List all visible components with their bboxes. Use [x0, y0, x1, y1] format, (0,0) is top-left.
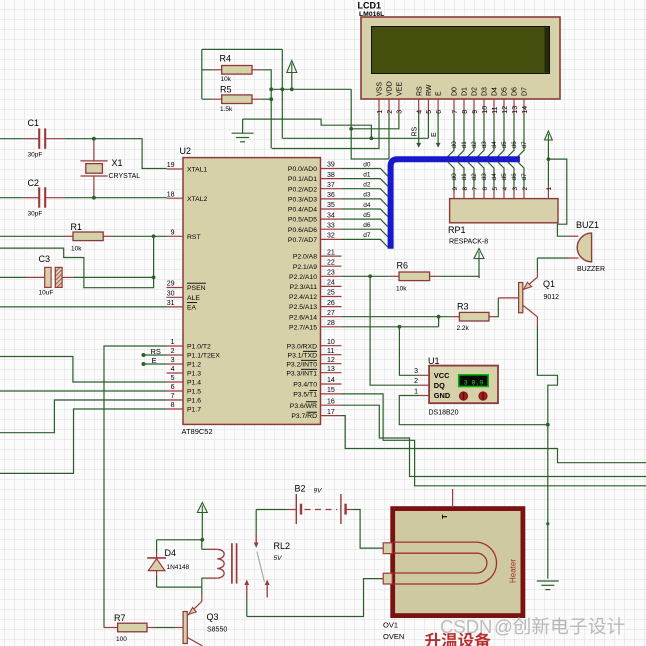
- svg-text:23: 23: [327, 270, 335, 277]
- label heating device (Chinese): [425, 632, 491, 646]
- svg-text:d3: d3: [481, 173, 488, 181]
- wire R4/R5 left vertical: [201, 49, 203, 99]
- svg-text:P1.1/T2EX: P1.1/T2EX: [187, 353, 220, 360]
- buzzer BUZ1: [569, 220, 606, 273]
- junction RST/staircase: [152, 234, 156, 238]
- svg-text:E: E: [436, 91, 443, 96]
- wire P1.5 left: [0, 390, 167, 392]
- junction R5/vertical: [269, 97, 273, 101]
- svg-text:7: 7: [452, 110, 459, 114]
- svg-text:R4: R4: [220, 54, 232, 64]
- svg-text:EA: EA: [187, 305, 197, 312]
- ground (bottom): [537, 581, 559, 590]
- svg-text:P1.0/T2: P1.0/T2: [187, 344, 211, 351]
- svg-text:P1.3: P1.3: [187, 371, 201, 378]
- svg-text:4: 4: [171, 366, 175, 373]
- svg-text:d4: d4: [491, 173, 498, 181]
- power terminal (relay): [197, 503, 207, 513]
- svg-text:PSEN: PSEN: [187, 285, 206, 292]
- RP1 pin 1 stub and number: [546, 185, 553, 199]
- svg-text:16: 16: [327, 398, 335, 405]
- wire P1.7 left: [0, 409, 167, 473]
- power terminal (top): [287, 61, 297, 73]
- svg-text:D0: D0: [452, 87, 459, 96]
- svg-text:P3.0/RXD: P3.0/RXD: [287, 343, 317, 350]
- svg-text:3: 3: [397, 110, 404, 114]
- svg-text:C2: C2: [28, 178, 40, 188]
- svg-text:P2.1/A9: P2.1/A9: [293, 264, 317, 271]
- svg-text:D6: D6: [512, 87, 519, 96]
- wire vertical to RW net: [281, 49, 283, 138]
- svg-text:d5: d5: [363, 212, 371, 219]
- svg-text:5V: 5V: [274, 555, 283, 562]
- wire ground staircase: [243, 119, 372, 138]
- svg-text:2: 2: [171, 348, 175, 355]
- wire VCC jog: [438, 317, 440, 327]
- svg-text:8: 8: [462, 110, 469, 114]
- svg-text:2.2k: 2.2k: [457, 325, 470, 332]
- svg-text:10uF: 10uF: [39, 290, 54, 297]
- svg-text:12: 12: [327, 357, 335, 364]
- svg-text:100: 100: [116, 636, 127, 643]
- svg-text:R7: R7: [114, 613, 126, 623]
- svg-text:13: 13: [512, 106, 519, 114]
- wire D4 bottom: [156, 576, 158, 587]
- svg-text:R3: R3: [457, 302, 469, 312]
- wire LCD VEE: [351, 114, 399, 129]
- svg-text:RESPACK-8: RESPACK-8: [449, 239, 488, 246]
- bus (blue): [391, 159, 520, 249]
- svg-text:8: 8: [462, 187, 469, 191]
- svg-text:P3.1/TXD: P3.1/TXD: [288, 352, 318, 359]
- junction power stem: [290, 87, 294, 91]
- svg-text:9: 9: [472, 110, 479, 114]
- svg-text:27: 27: [327, 310, 335, 317]
- svg-text:35: 35: [327, 202, 335, 209]
- oven OV1 heater box: [383, 489, 523, 641]
- wire D4 top: [156, 540, 158, 552]
- terminal RS (left): [142, 347, 167, 357]
- wire R4 right down: [262, 70, 271, 149]
- svg-text:RS: RS: [416, 86, 423, 96]
- svg-text:P0.3/AD3: P0.3/AD3: [288, 197, 317, 204]
- svg-text:1: 1: [171, 339, 175, 346]
- svg-text:P1.5: P1.5: [187, 389, 201, 396]
- svg-text:9V: 9V: [314, 488, 323, 495]
- svg-text:18: 18: [167, 191, 175, 198]
- svg-text:d6: d6: [363, 222, 371, 229]
- svg-text:d1: d1: [461, 141, 468, 149]
- svg-text:U2: U2: [180, 146, 192, 156]
- labels d0-d7 above bus: [451, 141, 528, 149]
- terminal RS: [412, 114, 422, 148]
- svg-text:P1.6: P1.6: [187, 398, 201, 405]
- svg-text:d0: d0: [363, 161, 371, 168]
- microcontroller U2 AT89C52: [180, 146, 321, 436]
- svg-text:P3.3/INT1: P3.3/INT1: [286, 370, 317, 377]
- wire buzzer bottom to Q1: [537, 257, 568, 259]
- U1 adjust knobs: [459, 392, 487, 400]
- svg-text:D5: D5: [502, 87, 509, 96]
- svg-text:D4: D4: [492, 87, 499, 96]
- svg-text:30pF: 30pF: [28, 211, 43, 218]
- svg-text:D2: D2: [472, 87, 479, 96]
- svg-text:VSS: VSS: [377, 82, 384, 96]
- svg-text:1: 1: [546, 187, 553, 191]
- svg-text:14: 14: [327, 377, 335, 384]
- svg-text:6: 6: [436, 110, 443, 114]
- svg-text:OV1: OV1: [383, 621, 398, 630]
- capacitor C3 (polarized): [39, 254, 63, 297]
- svg-text:DQ: DQ: [434, 381, 445, 390]
- svg-text:LCD1: LCD1: [358, 1, 382, 11]
- junction staircase/RW: [370, 136, 374, 140]
- svg-text:P0.1/AD1: P0.1/AD1: [288, 176, 317, 183]
- relay RL2 switch: [244, 533, 269, 598]
- terminal E: [431, 114, 441, 148]
- U2 right pin stubs, names, numbers: [286, 162, 341, 421]
- svg-text:d1: d1: [363, 171, 371, 178]
- U2 left pin stubs, names, numbers: [167, 162, 221, 413]
- svg-text:5: 5: [171, 375, 175, 382]
- wires LCD D0-D7 to bus: [447, 114, 524, 157]
- svg-text:X1: X1: [112, 158, 123, 168]
- svg-text:B2: B2: [295, 484, 306, 494]
- svg-text:RST: RST: [187, 234, 201, 241]
- svg-text:10: 10: [327, 339, 335, 346]
- svg-text:Heater: Heater: [509, 559, 518, 583]
- wire C1 to U2 XTAL1: [64, 139, 166, 169]
- svg-text:RP1: RP1: [448, 225, 466, 235]
- svg-text:d3: d3: [363, 192, 371, 199]
- svg-text:32: 32: [327, 233, 335, 240]
- svg-text:17: 17: [327, 409, 335, 416]
- wire R1 to U2 RST: [112, 235, 167, 237]
- svg-text:P1.2: P1.2: [187, 362, 201, 369]
- svg-text:3 0.0: 3 0.0: [464, 379, 484, 386]
- transistor Q3 S8550: [175, 595, 227, 646]
- svg-text:1.5k: 1.5k: [220, 106, 233, 113]
- svg-text:RS: RS: [151, 347, 161, 356]
- svg-text:XTAL2: XTAL2: [187, 196, 207, 203]
- svg-text:D3: D3: [482, 87, 489, 96]
- svg-text:10k: 10k: [71, 246, 82, 253]
- junction VCC buzzer tap: [547, 157, 551, 161]
- svg-text:C3: C3: [39, 254, 51, 264]
- svg-text:P0.2/AD2: P0.2/AD2: [288, 186, 317, 193]
- svg-text:2: 2: [414, 378, 418, 385]
- resistor R1: [73, 232, 103, 241]
- resistor R7: [118, 623, 147, 632]
- svg-text:D4: D4: [165, 548, 177, 558]
- wire VCC to buzzer: [548, 159, 568, 236]
- capacitor C1: [28, 118, 46, 159]
- svg-text:T: T: [440, 514, 449, 519]
- svg-text:P0.7/AD7: P0.7/AD7: [288, 237, 317, 244]
- svg-text:LM016L: LM016L: [359, 11, 384, 18]
- wire ground stem top: [242, 119, 244, 133]
- svg-text:d7: d7: [521, 141, 528, 149]
- wire coil rail to Q3 emitter: [201, 587, 203, 594]
- junction VEE tap: [349, 127, 353, 131]
- svg-text:3: 3: [414, 368, 418, 375]
- svg-text:R6: R6: [397, 261, 409, 271]
- power terminal (RP1/buzzer): [545, 131, 553, 140]
- svg-text:13: 13: [327, 366, 335, 373]
- wire C1 left to edge: [0, 138, 24, 140]
- wires bus to RP1 pins, labels and numbers: [447, 162, 528, 199]
- svg-text:10k: 10k: [221, 76, 232, 83]
- svg-text:P2.0/A8: P2.0/A8: [293, 254, 317, 261]
- svg-text:P3.5/T1: P3.5/T1: [293, 392, 317, 399]
- svg-text:Q1: Q1: [543, 279, 555, 289]
- wire C2 to U2 XTAL2: [64, 197, 166, 199]
- LCD LCD1 LM016L: [358, 1, 561, 100]
- svg-text:d2: d2: [471, 141, 478, 149]
- svg-text:d0: d0: [451, 141, 458, 149]
- wire LCD RW net: [282, 137, 428, 139]
- wire P1.6 left: [0, 400, 167, 433]
- resistor pack RP1 RESPACK-8: [448, 199, 558, 246]
- svg-text:6: 6: [482, 187, 489, 191]
- svg-text:d0: d0: [451, 173, 458, 181]
- svg-text:31: 31: [167, 300, 175, 307]
- wire P2.6 to R3: [342, 316, 451, 318]
- svg-text:RL2: RL2: [274, 541, 291, 551]
- svg-text:7: 7: [171, 393, 175, 400]
- wire R7 to Q3 base: [155, 627, 175, 629]
- svg-text:26: 26: [327, 300, 335, 307]
- svg-text:P2.6/A14: P2.6/A14: [289, 314, 317, 321]
- svg-text:5: 5: [426, 110, 433, 114]
- transistor Q1 9012: [498, 271, 559, 328]
- junction ground net: [546, 423, 550, 427]
- svg-text:30: 30: [167, 291, 175, 298]
- wire P1.0 to R7: [104, 346, 167, 628]
- svg-text:P0.5/AD5: P0.5/AD5: [288, 217, 317, 224]
- svg-text:XTAL1: XTAL1: [187, 167, 207, 174]
- svg-text:d7: d7: [521, 173, 528, 181]
- junction relay power: [200, 538, 204, 542]
- svg-text:P2.3/A11: P2.3/A11: [290, 284, 318, 291]
- svg-text:P2.7/A15: P2.7/A15: [289, 324, 317, 331]
- wire Q1 collector to ground: [537, 327, 557, 579]
- svg-text:E: E: [152, 356, 157, 365]
- junction C3/staircase: [152, 276, 156, 280]
- svg-text:33: 33: [327, 222, 335, 229]
- svg-text:d7: d7: [363, 232, 371, 239]
- svg-text:d4: d4: [491, 141, 498, 149]
- svg-text:2: 2: [522, 187, 529, 191]
- svg-text:4: 4: [502, 187, 509, 191]
- svg-text:OVEN: OVEN: [383, 632, 404, 641]
- svg-text:24: 24: [327, 280, 335, 287]
- wire C3 right to staircase: [73, 276, 154, 278]
- svg-text:RS: RS: [412, 126, 419, 136]
- diode D4 1N4148: [147, 548, 189, 576]
- wire P3.5 staircase: [342, 394, 646, 486]
- wire R3 to Q1 base: [495, 298, 499, 317]
- resistor R5: [222, 95, 252, 104]
- wire R5 right: [262, 98, 271, 100]
- svg-text:DS18B20: DS18B20: [429, 410, 459, 417]
- svg-text:S8550: S8550: [207, 627, 227, 634]
- wire RST left to edge: [0, 235, 64, 237]
- wire R6 to power: [437, 276, 479, 278]
- svg-text:C1: C1: [28, 118, 40, 128]
- wire P2.7 to VCC net of U1: [342, 326, 439, 328]
- wire DQ net: [370, 276, 419, 385]
- svg-text:P1.4: P1.4: [187, 380, 201, 387]
- svg-text:34: 34: [327, 212, 335, 219]
- svg-text:3: 3: [171, 357, 175, 364]
- terminal E (left): [142, 356, 167, 366]
- wire P1.4 left: [0, 357, 167, 383]
- resistor R4: [222, 66, 252, 75]
- wire P3.7 staircase: [342, 416, 646, 463]
- svg-text:CSDN: CSDN: [440, 616, 492, 637]
- svg-text:2: 2: [387, 110, 394, 114]
- svg-text:37: 37: [327, 182, 335, 189]
- svg-text:R1: R1: [71, 222, 83, 232]
- wire U1 GND to ground: [399, 396, 548, 425]
- svg-text:12: 12: [502, 106, 509, 114]
- svg-text:9: 9: [452, 187, 459, 191]
- wire P2.2 to R6: [342, 275, 390, 277]
- svg-text:P2.5/A13: P2.5/A13: [289, 304, 317, 311]
- svg-text:GND: GND: [434, 391, 451, 400]
- svg-text:U1: U1: [428, 356, 440, 366]
- junction DQ/P2.2: [368, 274, 372, 278]
- svg-text:11: 11: [492, 106, 499, 113]
- svg-text:39: 39: [327, 162, 335, 169]
- svg-text:Q3: Q3: [207, 612, 219, 622]
- svg-text:P3.7/RD: P3.7/RD: [291, 413, 317, 420]
- svg-text:P3.4/T0: P3.4/T0: [293, 382, 317, 389]
- junction R3 net / VCC: [437, 315, 441, 319]
- LCD pin stubs and numbers 1-14: [377, 99, 529, 114]
- power terminal (R6): [474, 249, 484, 259]
- wire LCD VDD: [388, 114, 390, 160]
- svg-text:P0.4/AD4: P0.4/AD4: [288, 207, 317, 214]
- svg-text:30pF: 30pF: [28, 152, 43, 159]
- wire C3 left to edge: [0, 276, 26, 278]
- svg-text:1: 1: [414, 388, 418, 395]
- svg-text:d1: d1: [461, 173, 468, 181]
- crystal X1: [80, 139, 140, 198]
- svg-text:36: 36: [327, 192, 335, 199]
- svg-text:11: 11: [327, 348, 334, 355]
- wire staircase C3 area: [0, 236, 154, 287]
- wire B2 to oven top terminal: [352, 510, 383, 549]
- wire VCC horizontal upper: [271, 88, 351, 90]
- svg-text:9: 9: [171, 230, 175, 237]
- svg-text:d2: d2: [471, 173, 478, 181]
- svg-text:P0.0/AD0: P0.0/AD0: [288, 166, 317, 173]
- wire to U1 VCC pin: [399, 327, 419, 376]
- svg-text:VEE: VEE: [397, 82, 404, 96]
- svg-text:R5: R5: [220, 85, 232, 95]
- svg-text:P3.6/WR: P3.6/WR: [290, 403, 317, 410]
- svg-text:29: 29: [167, 281, 175, 288]
- svg-text:AT89C52: AT89C52: [182, 427, 213, 436]
- resistor R6: [399, 272, 430, 281]
- svg-text:7: 7: [472, 187, 479, 191]
- svg-text:10: 10: [482, 106, 489, 114]
- svg-text:BUZ1: BUZ1: [576, 220, 599, 230]
- wire B2 left: [256, 509, 286, 511]
- svg-text:CRYSTAL: CRYSTAL: [109, 173, 141, 180]
- svg-text:@: @: [494, 616, 513, 637]
- svg-text:D1: D1: [462, 87, 469, 96]
- resistor R3: [459, 312, 489, 321]
- svg-text:28: 28: [327, 320, 335, 327]
- wire LCD VSS: [272, 114, 379, 149]
- svg-text:15: 15: [327, 387, 335, 394]
- svg-text:3: 3: [512, 187, 519, 191]
- svg-text:1N4148: 1N4148: [167, 564, 190, 571]
- wire EA to edge: [0, 306, 167, 308]
- svg-text:RW: RW: [426, 84, 433, 96]
- wire VCC to LCD VDD: [351, 89, 389, 159]
- svg-text:P0.6/AD6: P0.6/AD6: [288, 227, 317, 234]
- wire relay contact down: [246, 598, 248, 617]
- svg-text:E: E: [431, 132, 438, 137]
- svg-text:VDD: VDD: [387, 81, 394, 96]
- wires U2 P0.0-P0.7 to bus, labels d0-d7: [342, 161, 388, 247]
- svg-text:d5: d5: [501, 173, 508, 181]
- U1 LED display: [459, 375, 489, 387]
- junction X1 top: [92, 137, 96, 141]
- relay RL2 coil: [202, 541, 290, 584]
- wire C2 left to edge: [0, 197, 24, 199]
- svg-text:ALE: ALE: [187, 295, 200, 302]
- temperature sensor U1 DS18B20: [428, 356, 498, 417]
- svg-text:BUZZER: BUZZER: [577, 266, 605, 273]
- wire P3.6 staircase: [342, 405, 646, 476]
- svg-text:22: 22: [327, 259, 335, 266]
- capacitor C2: [28, 178, 46, 218]
- svg-text:P2.4/A12: P2.4/A12: [289, 294, 317, 301]
- junction X1 bottom: [92, 196, 96, 200]
- wire relay to oven bottom terminal: [247, 579, 384, 617]
- svg-text:d3: d3: [481, 141, 488, 149]
- svg-text:P3.2/INT0: P3.2/INT0: [286, 361, 317, 368]
- wire D4/coil top rail: [157, 539, 203, 541]
- svg-text:d5: d5: [501, 141, 508, 149]
- wire VCC top horizontal: [202, 48, 282, 50]
- svg-text:1: 1: [377, 110, 384, 114]
- svg-text:10k: 10k: [396, 286, 407, 293]
- svg-text:P2.2/A10: P2.2/A10: [289, 274, 317, 281]
- svg-text:d2: d2: [363, 182, 371, 189]
- svg-text:d4: d4: [363, 202, 371, 209]
- svg-text:8: 8: [171, 402, 175, 409]
- svg-text:14: 14: [522, 106, 529, 114]
- svg-text:21: 21: [327, 249, 335, 256]
- svg-text:4: 4: [417, 110, 424, 114]
- svg-text:19: 19: [167, 162, 175, 169]
- battery B2 9V: [287, 484, 353, 525]
- U1 pins 3,2,1 VCC DQ GND: [414, 368, 451, 400]
- svg-text:d6: d6: [511, 173, 518, 181]
- svg-text:38: 38: [327, 172, 335, 179]
- svg-text:9012: 9012: [544, 294, 560, 301]
- ground (top): [232, 133, 254, 142]
- wire D4/coil bottom rail: [157, 586, 202, 588]
- svg-text:VCC: VCC: [434, 371, 450, 380]
- svg-text:25: 25: [327, 290, 335, 297]
